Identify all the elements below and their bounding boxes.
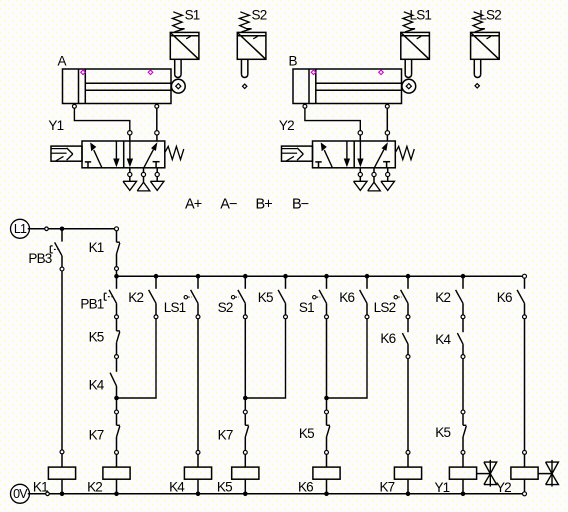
svg-text:K6: K6 [298,480,313,495]
wire cylinder B right port to valve Y2 port 2 [386,109,388,131]
wire c2 down to c1 [117,319,157,398]
wire to coil K4 [197,455,199,468]
junction bus c7 [365,274,370,279]
coil K7 [394,467,421,479]
terminal above coil K1 [60,450,64,454]
coil K2 [103,467,130,479]
valve Y1 supply triangle 1 [137,182,150,191]
junction coil K1 on 0V rail [60,492,65,497]
contact K6 row1 c10 [517,278,524,315]
svg-text:K2: K2 [435,290,450,305]
contact S1 [313,276,327,315]
node L1 [11,219,30,238]
junction c1 y398 [114,396,119,401]
terminal c3 row1 [196,315,200,319]
wire c7 down to c6 [327,319,368,398]
coil K6 [313,467,340,479]
valve Y2 body [313,141,396,168]
svg-text:K2: K2 [128,290,143,305]
svg-text:LS1: LS1 [410,7,432,22]
valve Y1 right cell down arrow [127,141,133,167]
contact K6 row2 c8 [402,319,408,355]
junction bus c6 [324,274,329,279]
wire terminal to coil K1 [61,454,63,467]
valve Y1 right cell flow arrow [144,142,158,168]
wire coil K1 to 0V [61,479,63,494]
valve Y2 bottom port 1 [372,168,376,182]
svg-text:K5: K5 [89,330,104,345]
terminal c1 y412 [115,410,119,414]
valve Y2 bottom port 5 [358,168,362,182]
valve Y2 return spring [395,146,414,159]
svg-text:PB3: PB3 [28,251,51,266]
valve Y2 supply triangle 1 [368,182,381,191]
wire coil Y2 to 0V [524,479,526,492]
svg-text:A: A [58,54,67,69]
coil K4 [184,467,211,479]
svg-text:0V: 0V [13,487,28,501]
junction bus c3 [196,274,201,279]
contact K7 row4 [117,414,120,450]
svg-text:K6: K6 [497,290,512,305]
cylinder A port right [155,104,159,108]
wire coil K5 to 0V [244,479,246,494]
svg-text:S1: S1 [185,7,200,22]
wire coil Y2 to solenoid symbol [538,473,552,475]
wire K1 to bus [116,271,118,277]
contact PB3 [50,229,62,267]
wire c10 down [524,319,526,450]
terminal c7 row1 [365,315,369,319]
junction coil K4 on 0V rail [196,492,201,497]
svg-text:K4: K4 [435,332,451,347]
cylinder A port left [72,104,76,108]
junction bus c9 [461,274,466,279]
svg-text:K2: K2 [87,480,102,495]
wire c1 to terminal [116,398,118,410]
contact K4 row3 [110,359,116,398]
valve Y1 body [82,141,165,168]
terminal c8 row1 [406,315,410,319]
wire to coil K6 [326,455,328,468]
terminal c1 row2 [115,355,119,359]
contact K2 row1 [149,276,156,315]
svg-text:S1: S1 [299,300,314,315]
limit switch LS2 spring [473,12,483,32]
svg-text:LS2: LS2 [374,300,396,315]
terminal L1 rail end [115,227,119,231]
terminal PB3 bottom [60,267,64,271]
terminal above coil K5 [243,450,247,454]
svg-text:Y1: Y1 [48,118,63,133]
contact K7 row4 c4 [245,414,248,450]
contact LS1 [184,276,198,315]
contact LS2 [394,276,408,315]
wire 0V rail [28,493,525,495]
cylinder B position marker right [379,70,384,75]
valve Y1 bottom port 1 [141,168,145,182]
svg-text:K7: K7 [218,428,233,443]
wire coil K2 to 0V [116,479,118,494]
wire c4 down [244,319,246,398]
cylinder B rod-end roller [402,79,416,93]
valve Y1 solenoid [51,146,82,161]
valve Y2 right cell flow arrow [374,142,388,168]
coil K5 [232,467,259,479]
wire coil Y1 to 0V [462,479,464,494]
svg-text:K5: K5 [435,425,450,440]
valve Y1 bottom port 5 [128,168,132,182]
svg-text:A−: A− [220,196,237,212]
position marker LS2 [475,84,479,88]
cylinder B port left [303,104,307,108]
valve Y2 solenoid [282,146,313,161]
svg-text:B+: B+ [256,196,273,212]
terminal c1 row1 [115,315,119,319]
coil Y1 [449,467,476,479]
svg-text:B: B [289,54,298,69]
terminal c6 row1 [325,315,329,319]
node 0V [11,484,30,503]
valve Y2 exhaust 5 [354,181,368,190]
junction c4 y398 [243,396,248,401]
cylinder A rod-end roller [171,79,185,93]
wire c9 down [462,359,464,410]
svg-text:K4: K4 [169,480,185,495]
svg-text:S2: S2 [218,300,233,315]
terminal c6 y412 [325,410,329,414]
limit switch S1 spring [172,12,182,32]
terminal on L1 rail [45,227,49,231]
position marker S2 [243,84,247,88]
cylinder A body [63,69,172,104]
svg-text:K7: K7 [379,480,394,495]
wire c8 down [407,359,409,451]
valve Y2 left cell blocked port [315,162,321,168]
contact K6 row1 c7 [360,276,367,315]
limit switch S2 spring [239,12,249,32]
svg-text:B−: B− [292,196,309,212]
contact S2 [231,276,245,315]
wire coil Y1 to solenoid symbol [477,473,491,475]
wire coil K6 to 0V [326,479,328,494]
valve Y2 exhaust 3 [381,181,395,190]
cylinder B body [293,69,402,104]
wire coil K7 to 0V [407,479,409,494]
limit switch LS1 spring [403,12,413,32]
contact K5 row4 c9 [463,414,466,450]
valve Y2 right cell down arrow [357,141,363,167]
terminal above coil K6 [325,450,329,454]
svg-text:S2: S2 [252,7,267,22]
junction coil K7 on 0V rail [406,492,411,497]
wire to coil K5 [244,455,246,468]
terminal c2 row1 [154,315,158,319]
wire cylinder A left port to valve Y1 port 4 [74,109,129,131]
svg-text:Y2: Y2 [496,480,511,495]
wire c4 to terminal [244,398,246,410]
terminal c9 row1 [461,315,465,319]
contact K4 row2 c9 [457,319,463,355]
contact K5 row1 [278,276,285,315]
wire to coil K2 [116,455,118,468]
wire c6 down [326,319,328,398]
valve Y1 exhaust 5 [123,181,137,190]
valve Y1 right cell blocked port [153,162,160,168]
junction coil Y1 on 0V rail [461,492,466,497]
terminal c5 row1 [284,315,288,319]
valve Y2 bottom port 3 [386,168,390,182]
valve Y2 left cell flow arrow [321,142,333,167]
solenoid symbol Y2 [546,460,559,487]
svg-text:K1: K1 [33,480,48,495]
svg-text:L1: L1 [14,222,27,236]
junction L1-PB3 [60,227,65,232]
valve Y1 left cell down arrow [113,141,119,167]
terminal c8 row2 [406,355,410,359]
limit switch S1 [170,29,199,78]
svg-text:K6: K6 [380,331,395,346]
wire c3 down [197,319,199,450]
wire bus [117,275,525,277]
svg-text:LS1: LS1 [164,300,186,315]
svg-text:K5: K5 [299,426,314,441]
valve Y2 left cell down arrow [344,141,350,167]
terminal c4 row1 [243,315,247,319]
junction bus c1 [114,274,119,279]
terminal c9 row2 [461,355,465,359]
cylinder B position marker left [311,70,316,75]
wire to coil Y1 [462,455,464,468]
cylinder A position marker left [81,70,86,75]
contact K2 row1 c9 [456,276,463,315]
valve Y2 top port 4 [358,131,362,141]
valve Y1 exhaust 3 [150,181,164,190]
terminal coil Y2 on 0V rail [523,492,527,496]
svg-text:K5: K5 [217,480,232,495]
junction bus c2 [154,274,159,279]
terminal above coil Y2 [523,450,527,454]
terminal c4 y412 [243,410,247,414]
junction coil K5 on 0V rail [243,492,248,497]
wire to coil Y2 [524,455,526,468]
svg-text:PB1: PB1 [80,297,103,312]
terminal above coil K4 [196,450,200,454]
svg-text:Y1: Y1 [434,480,449,495]
terminal K1 bottom [115,267,119,271]
cylinder A position marker right [148,70,153,75]
valve Y1 bottom port 3 [155,168,159,182]
contact PB1 [104,276,116,315]
wire c6 to terminal [326,398,328,410]
junction bus c5 [283,274,288,279]
limit switch LS2 [471,29,500,78]
wire cylinder B left port to valve Y2 port 4 [305,109,360,131]
junction c6 y398 [324,396,329,401]
svg-text:K6: K6 [339,290,354,305]
junction coil K2 on 0V rail [114,492,119,497]
terminal on 0V rail [46,492,50,496]
wire to coil K7 [407,455,409,468]
wire L1 rail [28,228,117,230]
terminal above coil K7 [406,450,410,454]
wire PB3 to coil K1 [61,271,63,450]
valve Y1 top port 2 [155,131,159,141]
junction bus c4 [243,274,248,279]
limit switch S2 [237,29,266,78]
limit switch LS1 [401,29,430,78]
terminal above coil Y1 [461,450,465,454]
wire cylinder A right port to valve Y1 port 2 [156,109,158,131]
valve Y1 left cell blocked port [85,162,91,168]
coil Y2 [511,467,538,479]
svg-text:Y2: Y2 [279,118,294,133]
valve Y1 left cell flow arrow [90,142,102,167]
svg-text:LS2: LS2 [479,7,501,22]
terminal bus end c10 [523,274,527,278]
valve Y1 top port 4 [128,131,132,141]
svg-text:K7: K7 [89,428,104,443]
contact K5 row2 [117,319,120,355]
svg-text:K5: K5 [258,290,273,305]
coil K1 [48,467,75,479]
contact K5 row4 c6 [327,414,330,450]
terminal c9 y412 [461,410,465,414]
junction bus c8 [406,274,411,279]
wire c5 down to c4 [245,319,285,398]
solenoid symbol Y1 [484,460,497,487]
wire coil K4 to 0V [197,479,199,494]
valve Y2 top port 2 [385,131,389,141]
junction coil K6 on 0V rail [324,492,329,497]
svg-text:K4: K4 [89,378,105,393]
terminal c10 row1 [523,315,527,319]
svg-text:K1: K1 [89,240,104,255]
valve Y1 return spring [165,146,184,159]
contact K1 [117,231,120,267]
cylinder B port right [385,104,389,108]
svg-text:A+: A+ [185,196,202,212]
terminal above coil K2 [115,450,119,454]
valve Y2 right cell blocked port [383,162,390,168]
